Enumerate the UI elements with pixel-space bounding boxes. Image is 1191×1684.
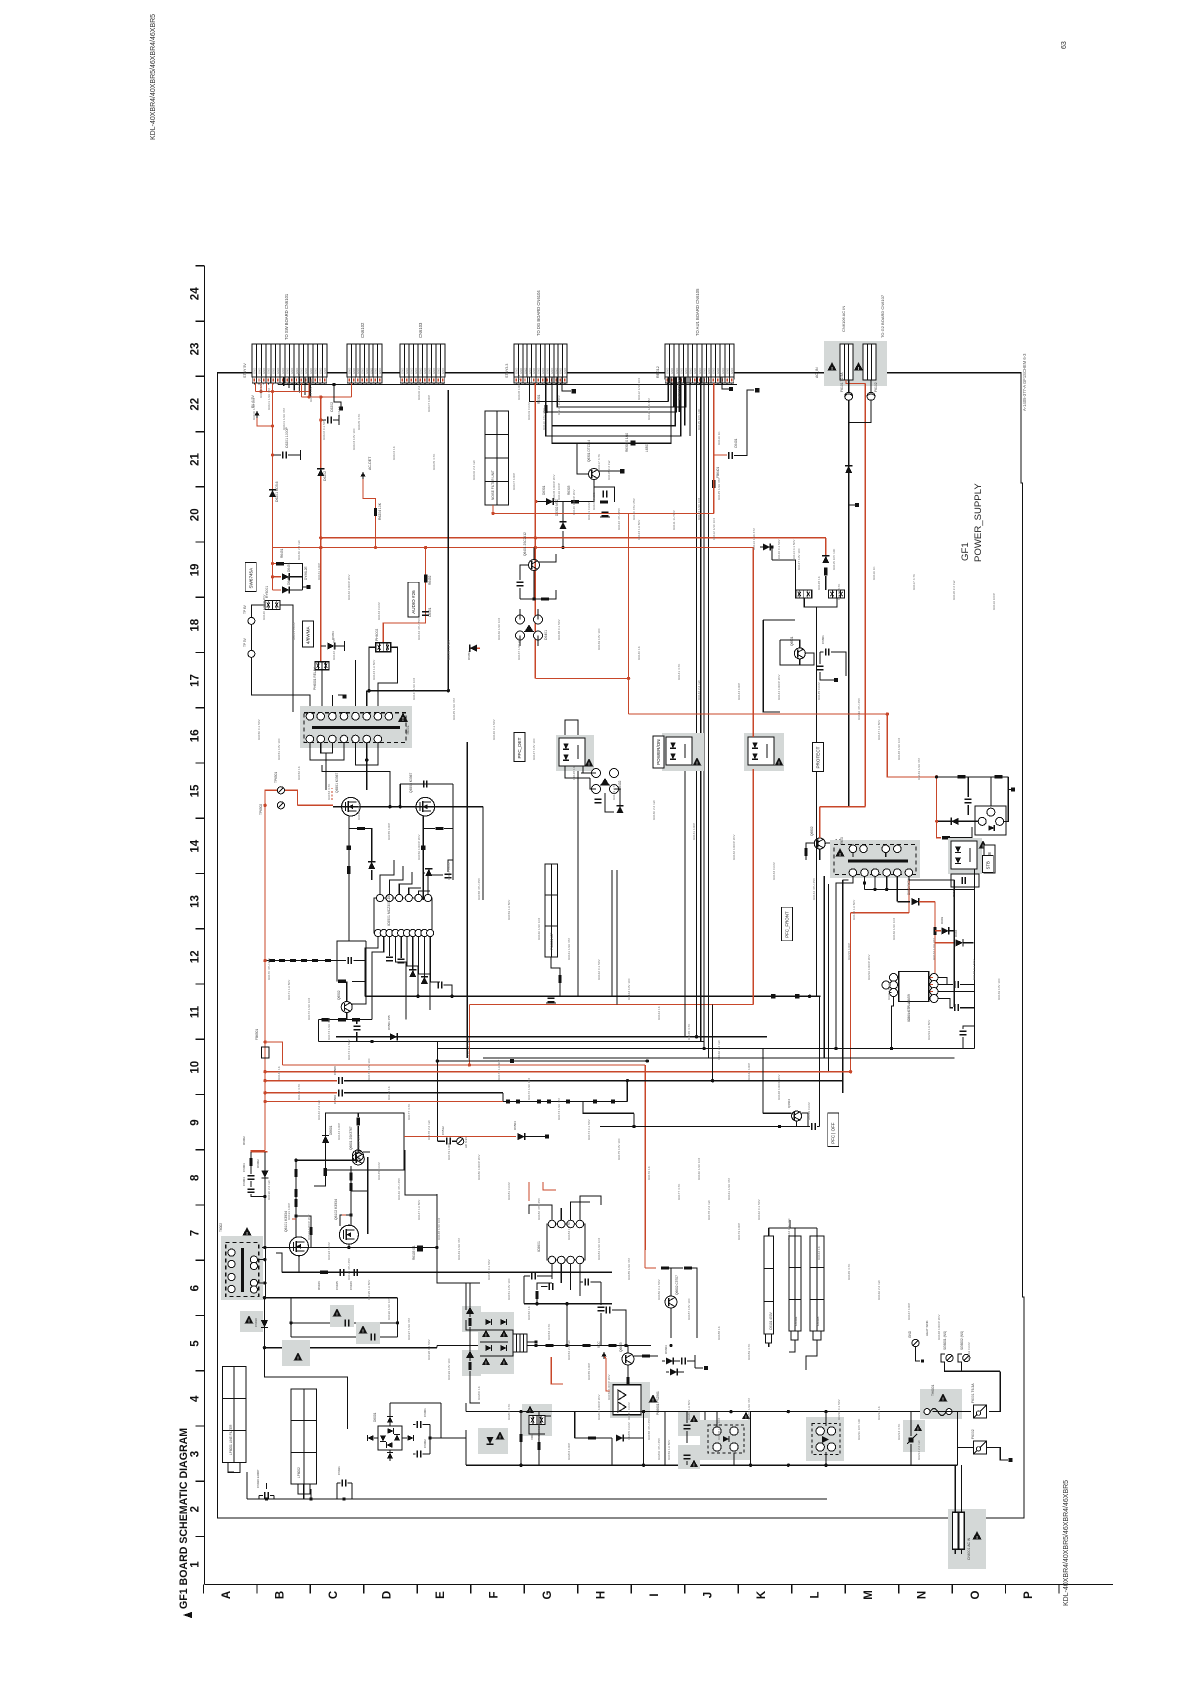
connector CN6101: [252, 344, 327, 377]
svg-text:R6197 1/16 472: R6197 1/16 472: [407, 1318, 411, 1340]
svg-text:R6113 1/16 472: R6113 1/16 472: [647, 398, 651, 420]
svg-text:C6004: C6004: [242, 1177, 246, 1186]
AC black drops: [848, 380, 850, 392]
svg-text:NOISE FILTER UNIT: NOISE FILTER UNIT: [491, 470, 495, 500]
svg-text:R6101 1/16 472: R6101 1/16 472: [267, 388, 271, 410]
svg-text:9: 9: [190, 1119, 202, 1125]
connector pin number boxes: [252, 377, 256, 383]
MOSFET Q6101: [289, 1237, 308, 1256]
resistor ladder y1101: [503, 1101, 627, 1103]
IC6601 top fan: [529, 1205, 552, 1220]
svg-text:GF1: GF1: [960, 542, 971, 561]
svg-text:R6105 0.1: R6105 0.1: [412, 1245, 416, 1260]
bus y996: [365, 995, 820, 997]
svg-text:C6021: C6021: [337, 1466, 341, 1475]
svg-text:SG6001 (NS): SG6001 (NS): [943, 1331, 947, 1350]
svg-text:10: 10: [190, 1061, 202, 1074]
svg-text:R6107 100P: R6107 100P: [512, 473, 516, 490]
svg-text:GND: GND: [356, 368, 360, 374]
svg-text:R6106 2.2 1W: R6106 2.2 1W: [417, 380, 421, 400]
svg-text:R6159 1U 50V: R6159 1U 50V: [507, 899, 511, 920]
svg-text:R6178 2.2 1W: R6178 2.2 1W: [707, 1200, 711, 1220]
PH6002 loop: [369, 647, 448, 690]
svg-text:D6201 RD5.6: D6201 RD5.6: [275, 481, 279, 502]
svg-text:R6208 1/10 103: R6208 1/10 103: [717, 1418, 721, 1440]
svg-text:R6155 100P: R6155 100P: [587, 1363, 591, 1380]
svg-text:R6153 4.7K: R6153 4.7K: [327, 783, 331, 800]
svg-text:R6002: R6002: [242, 1136, 246, 1145]
svg-text:GND: GND: [528, 368, 532, 374]
junction on weave p6: [631, 441, 636, 446]
AUDIO label: [408, 582, 419, 617]
svg-text:D6501 155: D6501 155: [387, 1015, 391, 1030]
transistor Q6301: [576, 443, 578, 470]
svg-text:GND: GND: [550, 368, 554, 374]
resistor row y960: [265, 960, 337, 962]
svg-text:R6124 1/10 103: R6124 1/10 103: [697, 498, 701, 520]
svg-text:R6121 0.022: R6121 0.022: [292, 622, 296, 640]
svg-text:D: D: [382, 1591, 394, 1599]
red net long vertical C22-C16: [272, 392, 274, 548]
svg-text:R6187 10V 100: R6187 10V 100: [687, 1298, 691, 1320]
svg-text:R6156 1000P 2KV: R6156 1000P 2KV: [607, 1373, 611, 1400]
svg-text:J: J: [702, 1592, 714, 1598]
IC6501 sub power reg: [374, 898, 432, 933]
IC6601 pins: [548, 1220, 556, 1228]
svg-text:R6301: R6301: [537, 394, 541, 404]
svg-text:R6157 0.022: R6157 0.022: [447, 862, 451, 880]
Q6301 sub network: [594, 480, 615, 503]
svg-text:R6160 1/10 103: R6160 1/10 103: [537, 918, 541, 940]
bridge D6402: [592, 769, 601, 778]
svg-text:R6183 1U 50V: R6183 1U 50V: [567, 1219, 571, 1240]
terminal stub near T6001: [331, 695, 333, 712]
svg-text:REG12: REG12: [656, 366, 660, 378]
svg-text:C6101 450V: C6101 450V: [769, 1311, 773, 1330]
svg-text:R6180 1000P 2KV: R6180 1000P 2KV: [477, 1153, 481, 1180]
bridge rectifier D6001: [378, 1426, 402, 1450]
svg-text:R6162 0.1 50V: R6162 0.1 50V: [597, 958, 601, 980]
svg-text:R6216 1000P 2KV: R6216 1000P 2KV: [867, 953, 871, 980]
svg-text:GND: GND: [286, 368, 290, 374]
MOSFET Q6501: [342, 797, 361, 816]
svg-text:R6173 1/16 472: R6173 1/16 472: [327, 1018, 331, 1040]
svg-text:TP 5V: TP 5V: [243, 637, 247, 647]
svg-text:GND: GND: [689, 368, 693, 374]
svg-text:R6199 10V 100: R6199 10V 100: [447, 1358, 451, 1380]
comparator cluster box: [763, 620, 780, 712]
cap C6001b: [264, 1492, 266, 1499]
svg-text:R6119 100P: R6119 100P: [557, 483, 561, 500]
svg-text:GND: GND: [432, 368, 436, 374]
svg-text:R6109 0.022: R6109 0.022: [592, 492, 596, 510]
relay RY6601 block: [522, 1404, 552, 1436]
gray cap box 3: [282, 1340, 310, 1366]
svg-text:R6131 100P: R6131 100P: [317, 563, 321, 580]
red riser x935: [934, 902, 936, 975]
svg-text:R6128 1K: R6128 1K: [572, 765, 576, 780]
vertical risers right of bridge: [405, 1150, 437, 1195]
svg-text:R6203 100P: R6203 100P: [567, 1443, 571, 1460]
svg-text:GND: GND: [563, 368, 567, 374]
svg-text:F6101 T2.5A: F6101 T2.5A: [840, 372, 844, 392]
svg-text:CN6103: CN6103: [418, 322, 423, 338]
bus y1080: [265, 1080, 337, 1082]
svg-text:R6181 0.022: R6181 0.022: [507, 1182, 511, 1200]
red rail x850 down: [850, 913, 852, 1072]
elbow from T6001 into rail: [322, 765, 390, 807]
svg-text:M: M: [863, 1590, 875, 1600]
schematic border frame: [218, 373, 1025, 1518]
svg-text:KDL-40XBR4/40XBR5/46XBR4/46XBR: KDL-40XBR4/40XBR5/46XBR4/46XBR5: [1063, 1480, 1070, 1606]
red gate marks: [292, 1218, 296, 1220]
vertical x437 net: [436, 1042, 438, 1142]
PC6401 top wires: [565, 720, 578, 735]
svg-text:GND: GND: [679, 368, 683, 374]
AC inlet stems: [954, 1465, 956, 1512]
transformer T6002 pins: [228, 1249, 235, 1256]
photocoupler PC6401: [556, 735, 594, 771]
T903 winding joins: [885, 853, 887, 858]
svg-text:D6301: D6301: [542, 485, 546, 495]
red branch to D903: [935, 930, 941, 932]
LF6001 stubs: [228, 1463, 234, 1472]
svg-text:D6603: D6603: [664, 1345, 668, 1354]
svg-text:R6127 10V 100: R6127 10V 100: [797, 548, 801, 570]
svg-text:R6165 4.7K: R6165 4.7K: [687, 1023, 691, 1040]
red leg x936 to STBY: [936, 821, 938, 838]
svg-text:Q6601 2SK3767: Q6601 2SK3767: [349, 1126, 353, 1150]
bus weave D-E p4: [552, 377, 675, 426]
svg-text:4: 4: [190, 1395, 202, 1402]
caps top feeds: [768, 1228, 770, 1236]
IC6501 red pin ticks: [377, 937, 379, 941]
svg-text:G: G: [542, 1590, 554, 1599]
svg-text:R6188 1K: R6188 1K: [717, 1325, 721, 1340]
svg-text:R6140 1K: R6140 1K: [637, 645, 641, 660]
svg-text:GND: GND: [378, 368, 382, 374]
fuse F6001: [974, 1405, 987, 1418]
photocoupler PC6402: [662, 733, 704, 771]
svg-text:C6002: C6002: [423, 1439, 427, 1448]
test pin circle 2: [248, 650, 255, 657]
svg-text:5: 5: [190, 1340, 202, 1347]
bus y1005 red: [469, 1004, 753, 1006]
svg-text:R6127 10V 100: R6127 10V 100: [532, 738, 536, 760]
svg-text:R6191 100P: R6191 100P: [287, 1203, 291, 1220]
svg-text:23: 23: [190, 343, 202, 356]
transistor Q6802 PFC-OFF: [814, 838, 825, 849]
comb E red pin hook: [713, 383, 715, 455]
T6002 right pin wires: [258, 1259, 265, 1261]
AC rail top y1412: [466, 1411, 932, 1413]
svg-text:PFC_DET: PFC_DET: [517, 737, 522, 758]
svg-text:STBY3.3: STBY3.3: [505, 364, 509, 378]
loop rect q6502: [337, 941, 366, 961]
bus y1036 diode: [336, 1036, 767, 1038]
svg-text:R6159 1U 50V: R6159 1U 50V: [667, 1439, 671, 1460]
svg-text:R6157 0.022: R6157 0.022: [627, 1402, 631, 1420]
coil PH6001: [315, 662, 329, 670]
transistor Q6104: [352, 1150, 363, 1161]
svg-text:R6139 10V 100: R6139 10V 100: [597, 628, 601, 650]
comb E pin drops weave: [667, 377, 669, 402]
svg-text:GND: GND: [437, 368, 441, 374]
red top-left elbow at row8: [251, 1151, 268, 1153]
diode block DY96L2E: [276, 562, 284, 565]
svg-text:Q6603: Q6603: [619, 1342, 623, 1352]
misc vertical x612-617: [611, 870, 613, 996]
svg-text:R6141 4.7K: R6141 4.7K: [677, 663, 681, 680]
svg-text:LF6002: LF6002: [297, 1467, 301, 1478]
svg-text:R6303: R6303: [567, 485, 571, 495]
svg-text:R6102 0.1 50V: R6102 0.1 50V: [297, 370, 301, 392]
svg-text:R6106: R6106: [317, 1281, 321, 1290]
red corner bottom left: [251, 1151, 265, 1157]
warning triangle T6001: [398, 713, 408, 722]
svg-text:GND: GND: [554, 368, 558, 374]
svg-text:CN6102: CN6102: [360, 322, 365, 338]
svg-text:Q6301 DTC114: Q6301 DTC114: [587, 440, 591, 462]
bus weave D-E p5: [546, 377, 681, 436]
svg-text:R6102 0.1 50V: R6102 0.1 50V: [322, 418, 326, 440]
svg-text:D6504: D6504: [513, 1121, 517, 1130]
svg-text:GND: GND: [702, 368, 706, 374]
svg-text:PFC | OFF: PFC | OFF: [831, 1122, 836, 1143]
IC901 STR-A6159: [899, 971, 929, 1001]
red TP loop row15: [265, 790, 297, 805]
AC black into RY901: [760, 547, 772, 560]
svg-text:N: N: [916, 1591, 928, 1599]
transistor Q6801: [794, 648, 805, 659]
svg-text:R6215 100P: R6215 100P: [847, 943, 851, 960]
riser x664: [664, 1412, 666, 1466]
svg-text:R6151 10V 100: R6151 10V 100: [507, 1278, 511, 1300]
svg-text:D6002: D6002: [256, 1159, 260, 1168]
svg-text:R6145 0.022: R6145 0.022: [817, 682, 821, 700]
svg-text:13: 13: [190, 895, 202, 908]
svg-text:R6212 1K: R6212 1K: [877, 1405, 881, 1420]
svg-text:GND: GND: [281, 368, 285, 374]
svg-text:R6176 1K: R6176 1K: [387, 1085, 391, 1100]
svg-text:HEAT SINK: HEAT SINK: [925, 1320, 929, 1336]
svg-text:R6149 1/16 472: R6149 1/16 472: [917, 758, 921, 780]
svg-text:R6170 47U 25V: R6170 47U 25V: [467, 1037, 471, 1060]
PFC OFF label: [828, 1113, 839, 1147]
transformer T903 pins: [849, 845, 857, 853]
IC6601 bottom fan: [551, 1264, 553, 1279]
svg-text:TP6501: TP6501: [274, 772, 278, 783]
svg-text:R6133 0.022: R6133 0.022: [377, 602, 381, 620]
AC black line long vertical: [848, 422, 850, 806]
svg-text:C6010: C6010: [254, 1318, 258, 1327]
svg-text:R6152 1K: R6152 1K: [527, 1305, 531, 1320]
bus y1347 lower: [264, 1347, 437, 1349]
svg-text:GND: GND: [675, 368, 679, 374]
bridge D6601 wires: [716, 1412, 718, 1427]
IC901 left loop: [890, 992, 892, 994]
svg-text:R6173 1/16 472: R6173 1/16 472: [557, 1098, 561, 1120]
svg-text:R6176 1K: R6176 1K: [647, 1165, 651, 1180]
red gate dashes: [331, 788, 333, 800]
photocoupler PC902: [948, 838, 982, 874]
transformer T903 core: [848, 860, 908, 863]
gray warn resistor right a: [462, 1306, 481, 1332]
svg-text:17: 17: [190, 674, 202, 687]
resistor ladder y1019: [319, 1019, 373, 1021]
Q6101 source net: [298, 1256, 300, 1273]
svg-text:R6192 1000P 2KV: R6192 1000P 2KV: [307, 1213, 311, 1240]
red jog to PH6002: [383, 548, 425, 642]
MOSFET Q6102: [339, 1225, 358, 1244]
svg-text:D6001: D6001: [373, 1412, 377, 1422]
svg-text:R6126 0.1 50V: R6126 0.1 50V: [492, 718, 496, 740]
IC6601 red top marks: [551, 1216, 553, 1220]
wires left cluster: [480, 1330, 513, 1338]
svg-text:T6001: T6001: [406, 725, 410, 735]
svg-text:R6116 1K: R6116 1K: [872, 566, 876, 580]
svg-text:R6142 2.2 1W: R6142 2.2 1W: [697, 680, 701, 700]
svg-text:R6178 2.2 1W: R6178 2.2 1W: [427, 1120, 431, 1140]
svg-text:R6131 100P: R6131 100P: [692, 823, 696, 840]
svg-text:R6124 1/10 103: R6124 1/10 103: [412, 678, 416, 700]
svg-text:C6401: C6401: [734, 438, 738, 448]
svg-text:GND: GND: [515, 368, 519, 374]
red right rail upper: [470, 647, 480, 649]
svg-text:R6206 47U 25V: R6206 47U 25V: [657, 1437, 661, 1460]
svg-text:R6147 1U 50V: R6147 1U 50V: [877, 719, 881, 740]
STBY F8 label: [984, 845, 995, 873]
svg-text:6: 6: [190, 1285, 202, 1291]
svg-text:R6139 10V 100: R6139 10V 100: [997, 978, 1001, 1000]
svg-text:R6204 1000P 2KV: R6204 1000P 2KV: [597, 1393, 601, 1420]
bus weave D-E p3: [546, 377, 676, 412]
svg-text:TO SW BOARD CN6101: TO SW BOARD CN6101: [284, 293, 289, 340]
IC6501 top fan: [380, 860, 394, 894]
svg-text:R6149 1/16 472: R6149 1/16 472: [457, 1238, 461, 1260]
svg-text:SW6745A: SW6745A: [248, 567, 253, 589]
svg-text:IC6601: IC6601: [537, 1241, 541, 1252]
svg-text:A: A: [221, 1591, 233, 1599]
svg-text:19: 19: [190, 564, 202, 577]
svg-text:GND: GND: [537, 368, 541, 374]
bus y1048 (standby gnd): [437, 1048, 974, 1050]
svg-text:R6163 10V 100: R6163 10V 100: [627, 978, 631, 1000]
sheet title: [178, 1428, 192, 1618]
terminal on AC rail: [849, 504, 855, 506]
black x954 drop: [953, 880, 955, 1007]
Q6401 emitter net: [520, 571, 534, 600]
svg-text:C6020 2200P: C6020 2200P: [256, 1470, 260, 1488]
AC rail to thermistor: [932, 1411, 971, 1413]
svg-text:R6186 0.1 50V: R6186 0.1 50V: [657, 1278, 661, 1300]
svg-text:TO G2 BOARD CN6107: TO G2 BOARD CN6107: [880, 294, 885, 338]
4/6WMA label: [302, 621, 313, 647]
left edge wires rows2-4: [436, 1346, 438, 1348]
svg-text:GND: GND: [410, 368, 414, 374]
svg-text:R6117 4.7K: R6117 4.7K: [597, 453, 601, 470]
svg-text:R6163 10V 100: R6163 10V 100: [787, 1218, 791, 1240]
svg-text:R6132 1000P 2KV: R6132 1000P 2KV: [347, 573, 351, 600]
svg-text:R6104 1K: R6104 1K: [337, 405, 341, 420]
net arrow PFC VCC: [603, 1352, 605, 1359]
svg-text:R6109 0.022: R6109 0.022: [527, 402, 531, 420]
svg-text:C6202: C6202: [330, 402, 334, 412]
AC inlet connector: [953, 1512, 959, 1549]
bus weave D-E p6: [552, 377, 671, 443]
svg-text:R6135 1U 50V: R6135 1U 50V: [447, 639, 451, 660]
svg-text:R6148 1/10 103: R6148 1/10 103: [897, 738, 901, 760]
svg-text:R6190 2.2 1W: R6190 2.2 1W: [267, 1180, 271, 1200]
PFC_DET label: [514, 733, 525, 762]
svg-text:C: C: [328, 1591, 340, 1599]
IC6001 bottom stub: [492, 505, 494, 513]
svg-text:R6164 1K: R6164 1K: [657, 1005, 661, 1020]
red coil feed PH6001: [320, 548, 322, 661]
svg-text:R6169 0.022: R6169 0.022: [807, 1102, 811, 1120]
svg-text:R6125 1/16 472: R6125 1/16 472: [452, 698, 456, 720]
connector CN6106: [840, 344, 853, 380]
svg-text:R6182 47U 25V: R6182 47U 25V: [537, 1197, 541, 1220]
svg-text:8: 8: [190, 1174, 202, 1181]
photocoupler PC6403: [744, 733, 784, 771]
svg-text:!: !: [693, 1417, 694, 1422]
red drop to PC6401: [535, 677, 628, 679]
black chain x251: [250, 1152, 252, 1158]
svg-text:C6003: C6003: [242, 1163, 246, 1172]
svg-text:K: K: [756, 1590, 768, 1599]
svg-text:R6146 47U 25V: R6146 47U 25V: [857, 697, 861, 720]
svg-text:R6200 1K: R6200 1K: [477, 1385, 481, 1400]
connector pin stubs: [253, 377, 255, 385]
svg-text:L: L: [809, 1591, 821, 1598]
svg-text:R6107 100P: R6107 100P: [427, 395, 431, 412]
bus y1061: [437, 1060, 647, 1062]
svg-text:R6166 2.2 1W: R6166 2.2 1W: [717, 1040, 721, 1060]
svg-text:R6154 2.2 1W: R6154 2.2 1W: [357, 800, 361, 820]
PFC FRONT label: [782, 907, 793, 941]
svg-text:C6106: C6106: [349, 1281, 353, 1290]
svg-text:R6100 1/10 103: R6100 1/10 103: [252, 398, 256, 420]
gray zone T903: [830, 840, 920, 878]
svg-text:R6111 1U 50V: R6111 1U 50V: [672, 509, 676, 530]
svg-text:AUDIO #26: AUDIO #26: [411, 590, 416, 614]
svg-text:R6171 1U 50V: R6171 1U 50V: [287, 979, 291, 1000]
svg-text:R6129 4.7K: R6129 4.7K: [612, 783, 616, 800]
svg-text:R6115 10V 100: R6115 10V 100: [832, 548, 836, 570]
black rail x846 upper: [848, 422, 850, 547]
LLC rail y806: [333, 806, 483, 808]
gate ladder Q6102: [350, 1166, 352, 1226]
svg-text:F6001 T6.3A: F6001 T6.3A: [971, 1383, 975, 1403]
wire row4 riser: [440, 1403, 442, 1438]
svg-text:TO DG BOARD CN6104: TO DG BOARD CN6104: [536, 290, 541, 336]
svg-text:R6112 1/10 103: R6112 1/10 103: [637, 378, 641, 400]
bus y1092: [265, 1092, 337, 1094]
svg-text:R6198 0.1 50V: R6198 0.1 50V: [427, 1338, 431, 1360]
svg-text:R6136 1/10 103: R6136 1/10 103: [892, 918, 896, 940]
discharge box G9: [326, 1113, 405, 1170]
shelf junction and NC stub: [334, 385, 341, 408]
svg-text:7: 7: [190, 1230, 202, 1236]
POWER/ON label: [653, 736, 664, 768]
tall box LF6002: [291, 1389, 317, 1494]
rail left risers: [465, 1403, 467, 1412]
relay RY6001 contact: [265, 600, 280, 609]
svg-text:R6110 47U 25V: R6110 47U 25V: [542, 407, 546, 430]
gray block CN6106 CN6107: [824, 341, 887, 386]
svg-text:R6174 0.1 50V: R6174 0.1 50V: [587, 1118, 591, 1140]
